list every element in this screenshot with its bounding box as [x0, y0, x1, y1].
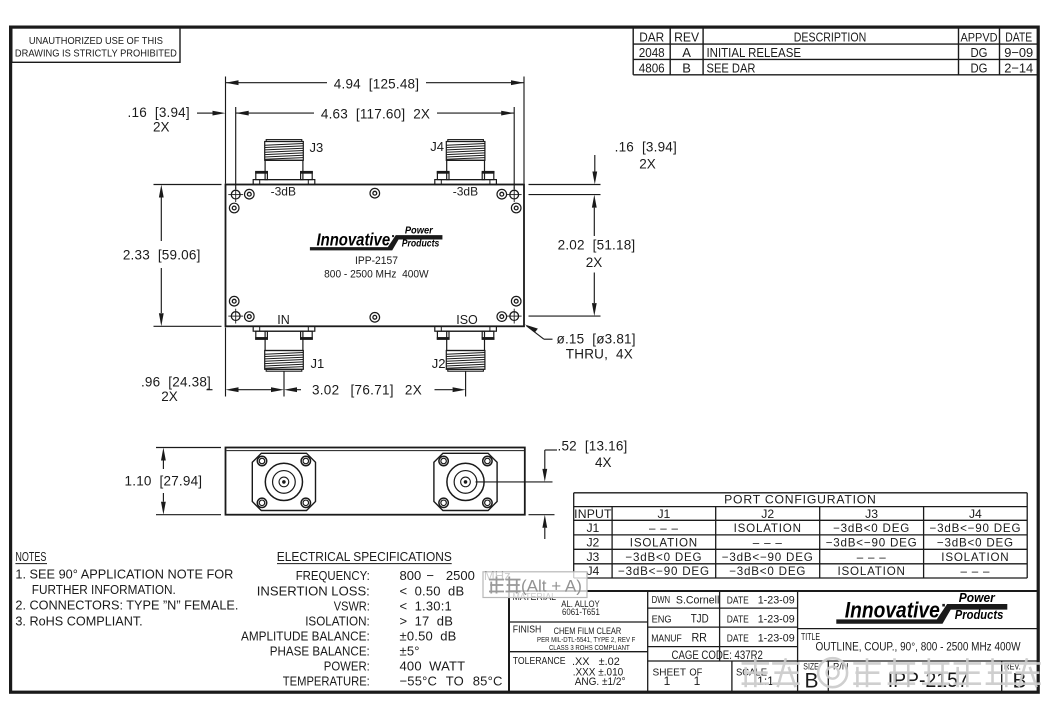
svg-text:J4: J4 — [969, 507, 982, 521]
svg-text:FINISH: FINISH — [513, 625, 542, 636]
svg-text:4.63 [117.60] 2X: 4.63 [117.60] 2X — [321, 107, 430, 122]
connector J2 flange (front view) — [434, 453, 497, 510]
svg-text:J3: J3 — [310, 140, 324, 155]
svg-text:POWER:: POWER: — [324, 659, 370, 674]
svg-text:−3dB<0 DEG: −3dB<0 DEG — [729, 565, 806, 578]
svg-text:4.94 [125.48]: 4.94 [125.48] — [334, 76, 419, 91]
title field — [801, 631, 1021, 653]
dimension 4.63 [117.60] 2X mounting hole span — [236, 107, 515, 189]
mounting hole bottom-right — [507, 309, 522, 324]
svg-text:1-23-09: 1-23-09 — [758, 614, 795, 626]
watermark zhihu text — [742, 658, 1041, 687]
Innovative Power Products logo (body) — [310, 226, 443, 251]
svg-text:INSERTION LOSS:: INSERTION LOSS: — [257, 583, 370, 598]
svg-text:−55°C TO 85°C: −55°C TO 85°C — [400, 674, 503, 689]
svg-text:B: B — [804, 670, 818, 693]
svg-text:B: B — [682, 60, 691, 75]
svg-text:J2: J2 — [761, 507, 774, 521]
svg-text:1-23-09: 1-23-09 — [758, 594, 795, 606]
connector J3 (N female, top) — [253, 140, 315, 185]
svg-text:PORT CONFIGURATION: PORT CONFIGURATION — [724, 493, 877, 507]
watermark screenshot hint box — [483, 572, 587, 598]
svg-text:−3dB<−90 DEG: −3dB<−90 DEG — [618, 565, 710, 578]
svg-text:1.10 [27.94]: 1.10 [27.94] — [125, 473, 203, 488]
dimension 2.33 [59.06] body height — [123, 185, 222, 327]
svg-text:−3dB<0 DEG: −3dB<0 DEG — [937, 537, 1014, 550]
svg-text:6061-T651: 6061-T651 — [562, 607, 600, 618]
svg-text:4806: 4806 — [639, 60, 665, 75]
cover screw top-center — [370, 188, 380, 198]
svg-text:THRU, 4X: THRU, 4X — [566, 346, 633, 361]
svg-text:400 WATT: 400 WATT — [400, 659, 466, 674]
svg-text:S.Cornell: S.Cornell — [676, 595, 720, 607]
svg-text:J3: J3 — [865, 507, 878, 521]
svg-text:TEMPERATURE:: TEMPERATURE: — [283, 674, 370, 689]
svg-text:ø.15 [ø3.81]: ø.15 [ø3.81] — [557, 332, 636, 347]
svg-text:DRAWING IS STRICTLY PROHIBITED: DRAWING IS STRICTLY PROHIBITED — [15, 49, 177, 60]
svg-text:-3dB: -3dB — [453, 184, 478, 198]
dimension .16 [3.94] 2X edge offset (right) — [529, 139, 677, 194]
svg-text:−: − — [426, 568, 434, 583]
svg-text:MANUF: MANUF — [651, 633, 682, 645]
svg-text:– – –: – – – — [649, 522, 679, 535]
mounting hole bottom-left — [228, 309, 243, 324]
svg-text:.96 [24.38]: .96 [24.38] — [141, 375, 211, 390]
svg-text:ELECTRICAL SPECIFICATIONS: ELECTRICAL SPECIFICATIONS — [277, 549, 452, 564]
svg-text:2500: 2500 — [446, 568, 475, 583]
connector J2 (N female, bottom) — [435, 326, 497, 371]
Innovative Power Products logo (title block) — [836, 590, 1007, 624]
svg-text:1: 1 — [694, 674, 701, 688]
svg-text:DATE: DATE — [727, 595, 749, 606]
svg-text:CAGE CODE: 437R2: CAGE CODE: 437R2 — [672, 650, 763, 662]
svg-text:AMPLITUDE BALANCE:: AMPLITUDE BALANCE: — [241, 628, 370, 643]
svg-text:ISO: ISO — [456, 313, 478, 327]
svg-text:−3dB<−90 DEG: −3dB<−90 DEG — [930, 522, 1022, 535]
cover screw bottom-left inner — [245, 312, 255, 322]
unauthorized-use notice box — [12, 27, 180, 62]
drawn/engineer/manufacturing approval rows — [651, 594, 795, 662]
svg-text:2048: 2048 — [639, 45, 665, 60]
svg-text:3.02 [76.71] 2X: 3.02 [76.71] 2X — [312, 383, 422, 398]
svg-text:1:1: 1:1 — [757, 674, 774, 688]
dimension .16 [3.94] 2X edge offset (left) — [128, 105, 226, 135]
svg-text:2.02 [51.18]: 2.02 [51.18] — [558, 237, 636, 252]
svg-text:OUTLINE, COUP., 90°, 800 - 250: OUTLINE, COUP., 90°, 800 - 2500 MHz 400W — [816, 642, 1021, 654]
dimension .96 [24.38] 2X connector offset — [141, 328, 284, 404]
svg-text:IPP-2157: IPP-2157 — [355, 255, 398, 267]
svg-text:NOTES: NOTES — [15, 549, 46, 564]
svg-text:2X: 2X — [639, 156, 656, 171]
svg-text:IN: IN — [277, 313, 290, 327]
port configuration table — [574, 493, 1027, 579]
dimension 1.10 [27.94] body thickness — [125, 448, 221, 515]
svg-text:TOLERANCE: TOLERANCE — [513, 656, 566, 667]
svg-text:VSWR:: VSWR: — [334, 598, 370, 613]
svg-text:2X: 2X — [161, 389, 178, 404]
svg-text:DATE: DATE — [727, 615, 749, 626]
cover screw top-left inner — [245, 189, 255, 199]
svg-text:UNAUTHORIZED USE OF THIS: UNAUTHORIZED USE OF THIS — [29, 36, 163, 47]
callout hole diameter .15 [3.81] THRU 4X — [525, 325, 636, 362]
connector J1 flange (front view) — [252, 453, 315, 510]
svg-text:2.33 [59.06]: 2.33 [59.06] — [123, 248, 201, 263]
cover screw bottom-center — [370, 313, 380, 323]
svg-text:ENG: ENG — [652, 614, 672, 626]
svg-text:J4: J4 — [430, 139, 444, 154]
material field — [513, 592, 601, 618]
svg-text:ANG. ±1/2°: ANG. ±1/2° — [575, 676, 626, 688]
svg-text:– – –: – – – — [857, 551, 887, 564]
svg-text:DESCRIPTION: DESCRIPTION — [794, 29, 867, 44]
svg-text:INPUT: INPUT — [574, 507, 612, 521]
svg-text:CLASS 3 ROHS COMPLIANT: CLASS 3 ROHS COMPLIANT — [549, 643, 630, 652]
cover screw right lower — [511, 296, 521, 306]
svg-text:DG: DG — [971, 45, 988, 60]
svg-text:– – –: – – – — [753, 537, 783, 550]
coupler body outline (front view) — [226, 448, 525, 515]
svg-text:DAR: DAR — [639, 29, 664, 44]
svg-text:J2: J2 — [586, 536, 599, 550]
svg-text:J4: J4 — [586, 564, 599, 578]
cover screw left lower — [229, 296, 239, 306]
cover screw bottom-right inner — [497, 312, 507, 322]
dimension .52 [13.16] 4X connector height — [476, 438, 628, 539]
mounting hole top-right — [507, 187, 522, 202]
svg-text:4X: 4X — [595, 455, 612, 470]
svg-text:−3dB<0 DEG: −3dB<0 DEG — [833, 522, 910, 535]
svg-text:.16 [3.94]: .16 [3.94] — [615, 139, 677, 154]
svg-text:– – –: – – – — [961, 565, 991, 578]
svg-text:PHASE BALANCE:: PHASE BALANCE: — [270, 643, 370, 658]
svg-text:(Alt + A): (Alt + A) — [521, 577, 582, 596]
svg-text:< 1.30:1: < 1.30:1 — [400, 598, 452, 613]
size / part number / revision fields — [803, 661, 1026, 692]
svg-text:APPVD: APPVD — [961, 30, 998, 44]
svg-text:J1: J1 — [311, 356, 325, 371]
svg-text:−3dB<0 DEG: −3dB<0 DEG — [625, 551, 702, 564]
svg-text:±0.50 dB: ±0.50 dB — [400, 628, 457, 643]
cover screw top-right inner — [497, 189, 507, 199]
revision table — [633, 27, 1038, 75]
mounting hole top-left — [228, 187, 243, 202]
svg-text:2X: 2X — [586, 255, 603, 270]
cover screw left upper — [229, 203, 239, 213]
svg-text:FURTHER INFORMATION.: FURTHER INFORMATION. — [32, 582, 176, 597]
svg-text:800 - 2500 MHz 400W: 800 - 2500 MHz 400W — [324, 268, 429, 280]
svg-text:DG: DG — [971, 60, 988, 75]
svg-text:J2: J2 — [432, 356, 446, 371]
svg-text:ISOLATION: ISOLATION — [941, 551, 1009, 564]
svg-text:3. RoHS COMPLIANT.: 3. RoHS COMPLIANT. — [15, 614, 142, 629]
electrical specifications — [241, 549, 511, 689]
dimension 3.02 [76.71] 2X connector spacing — [284, 372, 466, 398]
svg-text:DWN: DWN — [652, 594, 671, 606]
svg-text:ISOLATION:: ISOLATION: — [305, 613, 370, 628]
svg-text:−3dB<−90 DEG: −3dB<−90 DEG — [722, 551, 814, 564]
svg-text:INITIAL RELEASE: INITIAL RELEASE — [707, 45, 802, 60]
svg-text:1: 1 — [664, 674, 671, 688]
svg-text:DATE: DATE — [1005, 29, 1032, 44]
svg-text:2. CONNECTORS: TYPE ”N” FEMALE: 2. CONNECTORS: TYPE ”N” FEMALE. — [15, 598, 238, 613]
tolerance field — [513, 656, 626, 688]
svg-text:±5°: ±5° — [400, 643, 420, 658]
svg-text:9−09: 9−09 — [1004, 45, 1033, 60]
svg-text:RR: RR — [691, 632, 707, 644]
svg-text:ISOLATION: ISOLATION — [838, 565, 906, 578]
svg-text:DATE: DATE — [727, 634, 749, 645]
svg-text:ISOLATION: ISOLATION — [734, 522, 802, 535]
title block — [509, 591, 1038, 692]
svg-text:SEE DAR: SEE DAR — [707, 60, 756, 75]
svg-text:2−14: 2−14 — [1004, 60, 1033, 75]
cover screw right upper — [511, 203, 521, 213]
dimension 4.94 [125.48] overall width — [226, 76, 525, 183]
svg-text:A: A — [682, 45, 691, 60]
svg-text:1-23-09: 1-23-09 — [758, 633, 795, 645]
svg-text:J1: J1 — [586, 521, 599, 535]
connector J1 (N female, bottom) — [253, 326, 315, 371]
notes section — [15, 549, 238, 629]
svg-text:2X: 2X — [153, 120, 170, 135]
svg-text:FREQUENCY:: FREQUENCY: — [296, 568, 370, 583]
svg-text:TJD: TJD — [691, 614, 709, 626]
svg-text:-3dB: -3dB — [271, 184, 296, 198]
finish field — [513, 625, 636, 652]
svg-text:> 17 dB: > 17 dB — [400, 613, 454, 628]
svg-text:< 0.50 dB: < 0.50 dB — [400, 583, 465, 598]
coupler body outline (top view) — [226, 185, 525, 327]
svg-text:ISOLATION: ISOLATION — [630, 537, 698, 550]
svg-text:.16 [3.94]: .16 [3.94] — [128, 105, 190, 120]
svg-text:REV: REV — [674, 29, 699, 44]
svg-text:1. SEE 90° APPLICATION NOTE FO: 1. SEE 90° APPLICATION NOTE FOR — [15, 566, 233, 581]
svg-text:J3: J3 — [586, 550, 599, 564]
dimension 2.02 [51.18] 2X hole row span — [529, 195, 636, 317]
connector J4 (N female, top) — [435, 140, 497, 185]
svg-text:.52 [13.16]: .52 [13.16] — [558, 438, 628, 453]
svg-text:−3dB<−90 DEG: −3dB<−90 DEG — [826, 537, 918, 550]
sheet and scale fields — [653, 666, 775, 688]
svg-text:800: 800 — [400, 568, 422, 583]
svg-text:J1: J1 — [657, 507, 670, 521]
